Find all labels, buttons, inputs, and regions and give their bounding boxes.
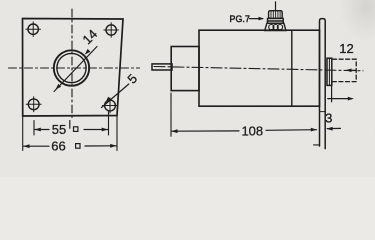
dim 108 line left xyxy=(172,130,240,132)
dim 108 arrow right xyxy=(311,128,317,132)
centerline tick at 55 dim xyxy=(69,121,71,129)
flange plate outline xyxy=(23,19,124,117)
dim 55 arrow left xyxy=(35,128,41,132)
scan shading top-right xyxy=(330,0,375,60)
gland stem centerline xyxy=(275,2,277,11)
flange inner tick xyxy=(320,111,326,113)
main body xyxy=(199,30,320,106)
dim 55 line left xyxy=(35,129,49,131)
dim 55 square symbol xyxy=(74,127,78,132)
horizontal centerline xyxy=(9,67,140,69)
dia-5 arrowhead xyxy=(106,97,111,103)
stroke arrow (left) on centerline xyxy=(347,69,356,71)
dim 55 extension line right xyxy=(108,112,110,136)
gland cap hatching xyxy=(271,11,280,18)
dim 66 line right xyxy=(85,145,116,147)
bolt hole TL xyxy=(26,22,41,37)
paper background xyxy=(0,0,375,177)
dim 108 arrow left xyxy=(171,129,177,133)
horizontal centerline xyxy=(154,67,363,71)
dim 66 arrow right xyxy=(110,144,116,148)
center bore outer circle xyxy=(54,50,89,85)
bolt hole TR xyxy=(104,23,119,38)
vertical centerline xyxy=(71,9,73,118)
flange foot tick xyxy=(314,144,320,146)
gland nut knurls xyxy=(269,25,274,30)
gland top cap xyxy=(269,11,283,19)
dim 3 line xyxy=(327,127,340,129)
shaft xyxy=(152,64,172,70)
stroke direction arrow (right) xyxy=(328,98,352,100)
PG.7 leader xyxy=(250,18,263,20)
PG.7 leader arrow xyxy=(259,17,265,21)
dim 66 extension line right xyxy=(116,116,118,151)
dim 108 extension line xyxy=(170,93,172,136)
bolt hole BL xyxy=(26,97,41,112)
dia-5 leader line xyxy=(102,84,129,108)
paper noise overlay xyxy=(0,0,375,177)
bolt hole BR xyxy=(103,98,118,113)
dim 55 extension line left xyxy=(33,121,35,136)
dia-14 arrowhead lower xyxy=(56,84,62,90)
mounting flange plate (edge view) xyxy=(320,19,326,149)
dim 108 line right xyxy=(266,129,317,132)
hidden plunger outline (dashed) xyxy=(333,59,357,81)
dim 55 arrow right xyxy=(102,128,108,132)
dim 66 square symbol xyxy=(76,144,80,149)
cable gland base nut xyxy=(265,23,286,30)
rear cap seam xyxy=(291,30,293,106)
dim 66 extension line left xyxy=(22,116,24,151)
dim 3 arrow xyxy=(327,127,333,131)
dim 55 line right xyxy=(84,129,108,131)
stroke reference line xyxy=(331,82,333,102)
rear boss xyxy=(327,58,332,85)
gland mid collar xyxy=(268,18,284,23)
front housing xyxy=(171,47,199,91)
dia-14 leader line xyxy=(54,47,97,92)
dim 66 line left xyxy=(24,145,50,147)
center bore inner circle xyxy=(57,53,86,82)
dim 66 arrow left xyxy=(23,144,29,148)
dia-14 arrowhead upper xyxy=(85,49,91,55)
